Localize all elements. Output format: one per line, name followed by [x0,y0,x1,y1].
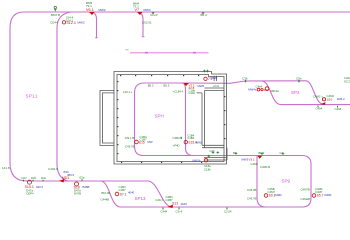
svg-text:SP2: SP2 [291,90,300,95]
svg-text:141.8: 141.8 [2,166,10,170]
svg-text:D4n: D4n [41,176,47,180]
svg-text:OC3: OC3 [344,80,350,84]
svg-text:4M10a: 4M10a [270,89,279,93]
svg-text:S10: S10 [74,185,80,189]
svg-text:B48B: B48B [83,185,90,189]
svg-text:SPH: SPH [155,114,164,119]
svg-text:S10.1: S10.1 [25,185,34,189]
svg-text:SP9: SP9 [282,179,291,184]
svg-text:D47B: D47B [74,191,81,195]
svg-text:MD1: MD1 [62,176,69,180]
svg-text:E15: E15 [139,140,145,144]
svg-text:312.1: 312.1 [67,21,77,25]
svg-text:SP13: SP13 [135,196,147,201]
svg-text:D2b: D2b [31,176,37,180]
svg-text:C49.7B: C49.7B [247,197,256,201]
svg-text:V3.1: V3.1 [249,158,256,162]
svg-text:C4M7B: C4M7B [301,187,310,191]
svg-text:MW2: MW2 [78,21,85,25]
svg-text:C4M4 B: C4M4 B [260,165,270,169]
svg-text:V7: V7 [135,8,140,12]
svg-text:C4MaB: C4MaB [301,197,310,201]
svg-text:4043: 4043 [181,202,188,206]
svg-text:B5.3: B5.3 [164,83,170,87]
svg-text:C444B: C444B [101,197,110,201]
svg-text:MW8: MW8 [211,76,218,80]
svg-text:+C184.4: +C184.4 [173,90,184,94]
svg-text:C494.9: C494.9 [48,167,58,171]
svg-text:D27: D27 [22,176,28,180]
svg-text:C4b4: C4b4 [316,107,323,111]
svg-text:C1B4: C1B4 [187,136,194,140]
svg-text:MW2: MW2 [99,8,106,12]
svg-text:C18c: C18c [189,91,196,95]
svg-text:V6.1: V6.1 [86,8,94,12]
svg-text:D5P4: D5P4 [27,191,34,195]
svg-text:B5.4: B5.4 [201,13,208,17]
svg-text:CD44: CD44 [50,21,58,25]
svg-text:+C4x: +C4x [213,84,220,88]
svg-text:A4Mb: A4Mb [275,193,283,197]
svg-text:C2.04: C2.04 [224,209,232,213]
svg-text:C36: C36 [242,77,248,81]
svg-text:MW4: MW4 [144,8,151,12]
svg-text:IMM4: IMM4 [325,193,332,197]
svg-text:140.1 +: 140.1 + [123,90,133,94]
svg-text:MW4x: MW4x [248,88,257,92]
svg-text:BM7 B: BM7 B [51,13,60,17]
svg-text:C4b8: C4b8 [335,107,342,111]
svg-text:C18b: C18b [204,167,211,171]
svg-text:MW6: MW6 [198,84,205,88]
svg-text:C3+4: C3+4 [176,209,183,213]
svg-text:+P4D: +P4D [173,143,180,147]
svg-text:C4M2: C4M2 [251,162,259,166]
svg-text:C1B7: C1B7 [119,188,126,192]
svg-text:S13: S13 [172,202,178,206]
svg-text:C444: C444 [161,209,168,213]
svg-text:C49.4B: C49.4B [247,188,256,192]
svg-text:C4M2 +: C4M2 + [313,95,323,99]
svg-text:SP11: SP11 [26,93,38,98]
svg-text:C2+P: C2+P [150,13,158,17]
svg-text:040.2: 040.2 [36,185,43,189]
svg-text:C02.01: C02.01 [142,20,152,24]
svg-text:22.8: 22.8 [189,86,195,90]
svg-text:B5.2: B5.2 [148,83,154,87]
svg-text:MW2: MW2 [196,140,203,144]
svg-text:4040: 4040 [128,190,135,194]
svg-text:C4b4: C4b4 [256,85,263,89]
svg-text:E2a: E2a [80,176,85,180]
svg-text:S5.7: S5.7 [317,194,324,198]
svg-text:312: 312 [264,88,269,92]
svg-text:MW1b: MW1b [193,159,202,163]
svg-text:MW3: MW3 [242,158,249,162]
svg-text:149.1 B: 149.1 B [125,136,135,140]
svg-text:S10: S10 [327,98,333,102]
svg-text:4M4.2: 4M4.2 [337,97,345,101]
svg-text:BM2: BM2 [259,151,265,155]
svg-text:C49.1: C49.1 [155,198,163,202]
svg-text:BM.1B: BM.1B [102,191,111,195]
svg-text:C49.7B: C49.7B [125,145,134,149]
svg-text:MW: MW [148,140,153,144]
svg-text:S7.1: S7.1 [120,193,127,197]
